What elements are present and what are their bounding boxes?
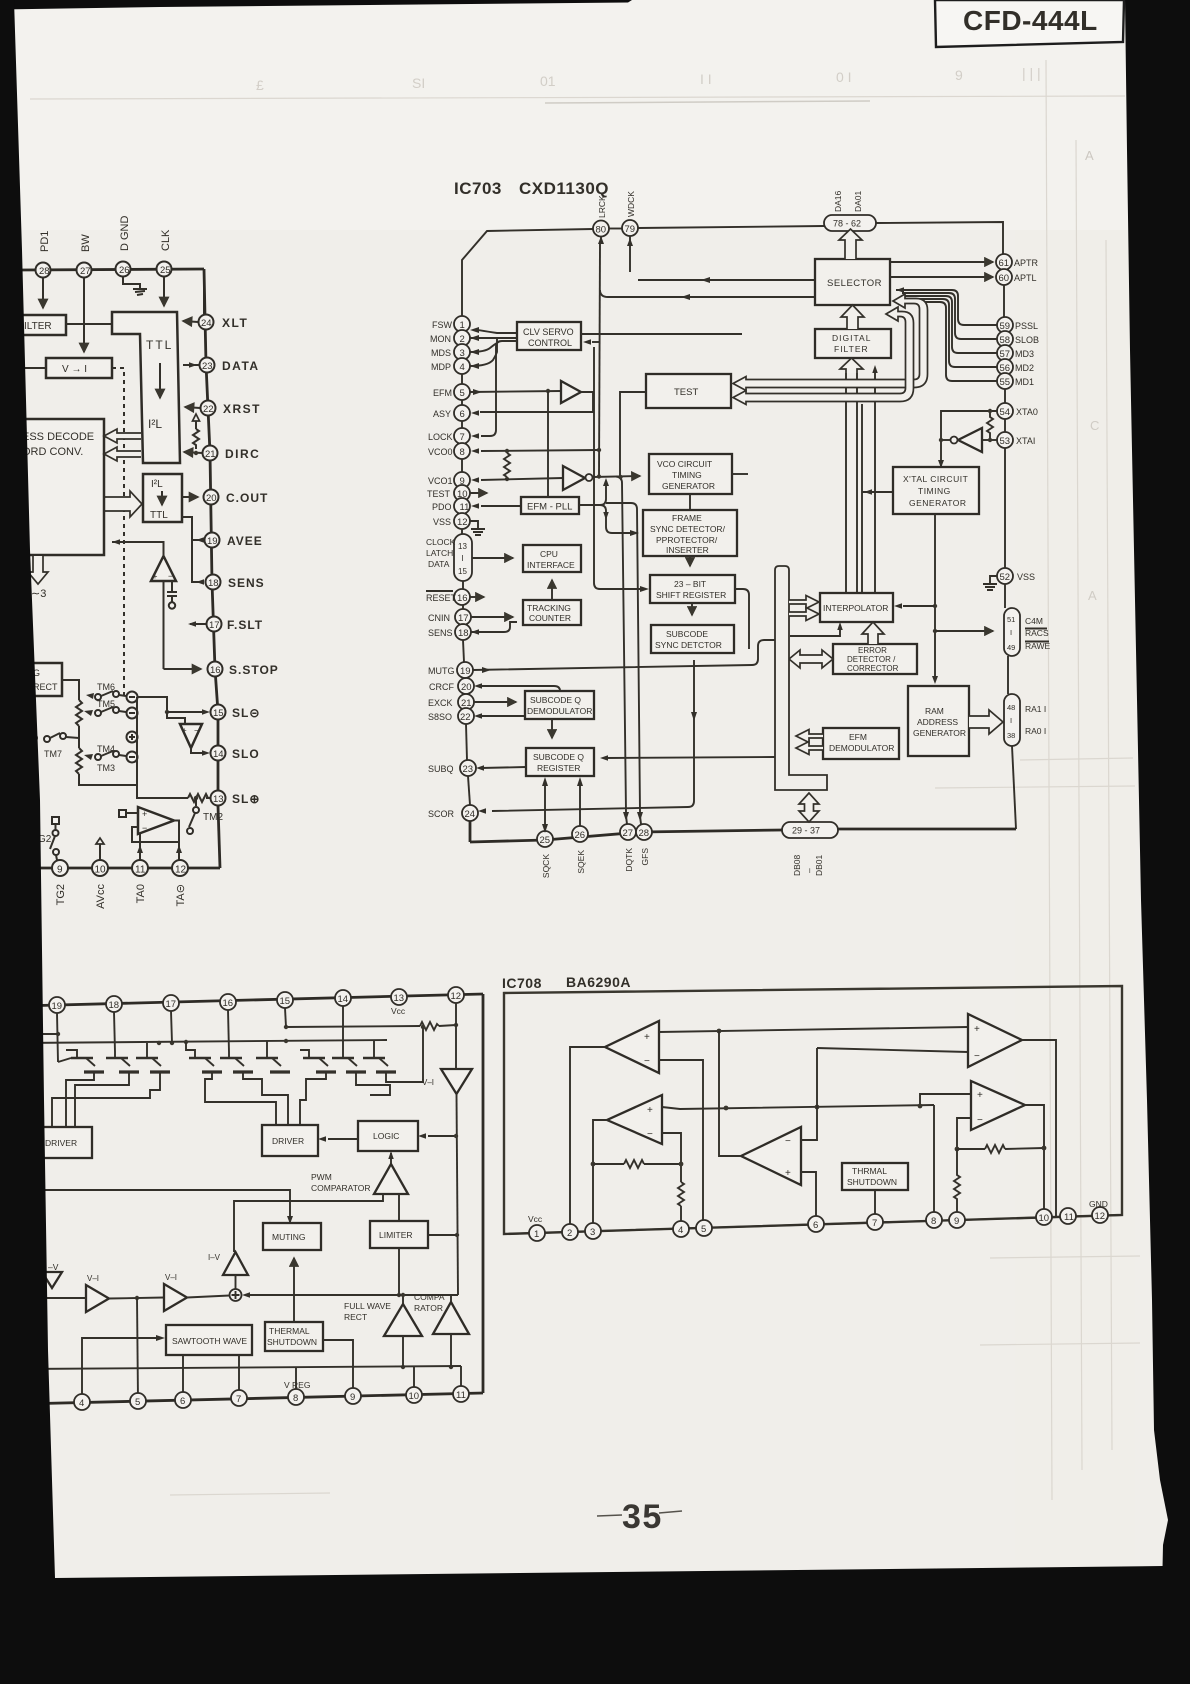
box MUTING — [263, 1223, 321, 1250]
svg-text:FULL WAVE: FULL WAVE — [344, 1301, 391, 1311]
svg-text:7: 7 — [236, 1394, 241, 1405]
resistor R-tm lower — [76, 748, 82, 774]
svg-text:ADDRESS: ADDRESS — [917, 717, 958, 727]
hollow arrow EFM demod to bus upper — [796, 730, 823, 743]
wire EFM-PLL to pin 28 (GFS) — [606, 503, 640, 812]
svg-text:26: 26 — [575, 830, 586, 841]
svg-text:27: 27 — [80, 266, 91, 277]
svg-text:PDO: PDO — [432, 502, 452, 512]
wire pin22 into TTL — [185, 407, 200, 408]
wire vco gen right to selector bus — [732, 473, 748, 475]
wire pin4 to sawtooth — [82, 1338, 156, 1401]
svg-text:LOGIC: LOGIC — [373, 1131, 399, 1141]
svg-text:XRST: XRST — [223, 402, 261, 416]
svg-text:DRIVER: DRIVER — [272, 1136, 304, 1146]
svg-text:SENS: SENS — [228, 576, 265, 590]
svg-text:PPROTECTOR/: PPROTECTOR/ — [656, 535, 718, 545]
svg-text:23: 23 — [202, 361, 213, 372]
box FILTER (cut by scan edge) — [18, 315, 66, 335]
svg-text:DB01: DB01 — [814, 854, 824, 876]
box SUBCODE Q REGISTER — [526, 748, 594, 776]
pin 20 CRCF — [458, 678, 474, 694]
pin 24 — [199, 315, 214, 330]
pin 1 FSW — [454, 316, 470, 332]
transistor Q7 — [300, 1050, 336, 1072]
wire SCOR long from subcode sync — [492, 660, 694, 811]
svg-text:C: C — [1090, 418, 1099, 433]
wire pwm comp to logic — [390, 1153, 392, 1164]
svg-text:THERMAL: THERMAL — [269, 1326, 310, 1336]
svg-text:1: 1 — [534, 1229, 539, 1240]
svg-text:LATCH: LATCH — [426, 548, 453, 558]
svg-text:TTL: TTL — [146, 338, 173, 352]
wire mid rail down to pin 8 — [933, 1105, 935, 1212]
hollow bus selector to TEST upper (arrow into TEST) — [733, 294, 928, 391]
svg-text:ILTER: ILTER — [24, 321, 52, 332]
switch G2 — [38, 817, 59, 860]
svg-text:22: 22 — [460, 712, 471, 723]
wire fan MD2 — [902, 299, 997, 367]
svg-text:–V: –V — [48, 1262, 59, 1272]
triangle comparator — [433, 1302, 469, 1334]
svg-text:−: − — [194, 726, 199, 735]
pin 2 MON — [454, 330, 470, 346]
hollow arrow TTL to decoder lower — [104, 447, 141, 461]
svg-text:GFS: GFS — [640, 848, 650, 866]
wire resistor to pin13 — [206, 797, 210, 799]
wire pin21 into TTL with junction — [184, 452, 202, 453]
bus vertical pair from digital filter to interpolator — [845, 373, 847, 593]
pin 26 — [116, 262, 131, 277]
wire pin12 down through V-I — [455, 1003, 457, 1069]
wire CRCF — [479, 686, 560, 691]
svg-text:29 - 37: 29 - 37 — [792, 826, 820, 836]
wire pin15 down — [285, 1008, 286, 1027]
svg-text:SENS: SENS — [428, 628, 453, 638]
svg-text:I²L: I²L — [148, 417, 162, 431]
box RAM ADDRESS GENERATOR — [908, 686, 969, 756]
svg-text:ERROR: ERROR — [858, 646, 887, 655]
svg-text:| | |: | | | — [1022, 65, 1041, 81]
wire thermal shutdown up — [293, 1258, 295, 1322]
wire pill 48-38 to bottom rail — [1012, 746, 1016, 829]
page number — [597, 1498, 682, 1536]
svg-text:DEMODULATOR: DEMODULATOR — [829, 743, 894, 753]
transistor Q8 — [332, 1052, 366, 1072]
wire comparator output — [450, 1334, 452, 1367]
wire A1 minus input down to pin 5 — [659, 1060, 703, 1220]
package outline right edge — [482, 994, 485, 1393]
svg-text:18: 18 — [208, 578, 219, 589]
bottom black band — [0, 1566, 1190, 1684]
scan artifacts — [30, 60, 1140, 1500]
hollow arrow error det to interpolator — [862, 622, 884, 644]
switch TM2 — [187, 796, 223, 834]
svg-text:20: 20 — [206, 493, 217, 504]
svg-text:11: 11 — [135, 865, 146, 876]
wire MUTG long horizontal — [473, 640, 775, 670]
wire FILTER right to TTL left — [66, 323, 112, 325]
svg-text:4: 4 — [79, 1398, 84, 1409]
svg-text:ESS DECODE: ESS DECODE — [22, 431, 94, 443]
pin 16 RESET — [454, 589, 470, 605]
svg-text:INSERTER: INSERTER — [666, 545, 709, 555]
wire fan MD3 — [902, 296, 997, 353]
pin chain 6-7 — [461, 421, 463, 428]
svg-text:XTAI: XTAI — [1016, 436, 1035, 446]
svg-text:DATA: DATA — [428, 559, 450, 569]
svg-text:17: 17 — [209, 620, 220, 631]
svg-text:TEST: TEST — [674, 387, 698, 398]
svg-text:RECT: RECT — [33, 682, 58, 692]
svg-text:DIGITAL: DIGITAL — [832, 333, 871, 343]
svg-text:TA⊝: TA⊝ — [175, 884, 187, 906]
svg-text:−: − — [977, 1115, 983, 1126]
junction on SL- wire — [165, 710, 169, 714]
svg-text:8: 8 — [931, 1216, 936, 1227]
wire demod to register — [551, 719, 553, 738]
wire I2L box bottom to AVEE/SENS riser — [182, 517, 203, 582]
svg-text:0 I: 0 I — [836, 69, 852, 85]
hollow arrow into digital filter from below — [840, 358, 863, 373]
wire SENS into tracking counter — [471, 622, 517, 632]
bottom rail (thick) — [504, 1215, 1122, 1234]
wire into pin16 — [164, 668, 202, 670]
switch TM4 — [84, 744, 126, 760]
svg-text:VCO1: VCO1 — [428, 476, 453, 486]
box THERMAL SHUTDOWN (IC708) — [842, 1163, 908, 1190]
svg-text:APTL: APTL — [1014, 273, 1037, 283]
pin 11 — [453, 1386, 469, 1402]
wire sawtooth outputs down — [182, 1355, 184, 1399]
svg-text:AVEE: AVEE — [227, 534, 263, 548]
pin 28 — [36, 263, 51, 278]
box ADDRESS DECODE WORD CONV (cut by scan edge) — [10, 419, 104, 555]
svg-text:LRCK: LRCK — [597, 195, 607, 218]
svg-text:CPU: CPU — [540, 549, 558, 559]
svg-text:DRIVER: DRIVER — [45, 1138, 77, 1148]
svg-text:24: 24 — [465, 809, 476, 820]
svg-text:+: + — [974, 1024, 980, 1035]
box LOGIC — [358, 1121, 418, 1151]
pin 13 — [211, 791, 226, 806]
wire selector to WDCK line — [638, 279, 815, 281]
svg-text:TEST: TEST — [427, 489, 451, 499]
svg-text:+: + — [153, 571, 158, 581]
pin 21 — [203, 446, 218, 461]
svg-text:17: 17 — [166, 999, 177, 1010]
switch TM7 — [20, 733, 79, 759]
svg-text:REGISTER: REGISTER — [537, 763, 580, 773]
wire into V-I first — [20, 1297, 86, 1299]
svg-text:SYNC DETECTOR/: SYNC DETECTOR/ — [650, 524, 726, 534]
wire I2L box to pin 20 — [182, 496, 198, 498]
svg-text:8: 8 — [293, 1393, 298, 1404]
svg-text:V–I: V–I — [422, 1078, 434, 1087]
svg-text:28: 28 — [639, 828, 650, 839]
wire into CLV right edge from LRCK vertical — [592, 341, 599, 343]
pin 19 — [205, 533, 220, 548]
feedback resistor right — [957, 1148, 985, 1150]
box VCO CIRCUIT TIMING GENERATOR — [649, 454, 732, 494]
svg-text:SCOR: SCOR — [428, 809, 455, 819]
box EFM-PLL — [521, 497, 579, 514]
wire SL+ chain down to bottom rail — [218, 806, 220, 868]
main data bus vertical (L-shaped) — [775, 566, 827, 790]
wire into shift register from CLV vertical — [594, 347, 640, 589]
svg-text:S.STOP: S.STOP — [229, 663, 279, 677]
wire FWR apex up — [402, 1295, 404, 1304]
wire pin28 to FILTER — [42, 278, 44, 308]
pin 52 — [997, 568, 1013, 584]
pin 60 — [996, 269, 1012, 285]
pin 61 — [996, 254, 1012, 270]
wire pin 17 down — [171, 1011, 172, 1043]
box X'TAL CIRCUIT TIMING GENERATOR — [893, 467, 979, 514]
box SUBCODE SYNC DETCTOR — [651, 625, 734, 653]
svg-text:APTR: APTR — [1014, 258, 1039, 268]
pin 5 — [696, 1220, 712, 1236]
svg-text:11: 11 — [460, 502, 470, 513]
pin 13 — [391, 989, 407, 1005]
resistor on pin4 leg — [678, 1182, 684, 1206]
svg-text:C.OUT: C.OUT — [226, 491, 268, 505]
wire pin11 stub — [460, 1366, 462, 1394]
transistor Q5 — [220, 1052, 253, 1072]
svg-text:FRAME: FRAME — [672, 513, 702, 523]
svg-text:VCO CIRCUIT: VCO CIRCUIT — [657, 459, 712, 469]
wire frame sync to shift register — [689, 556, 691, 566]
polarity node minus TM3 — [127, 752, 138, 763]
box SELECTOR — [815, 259, 890, 305]
svg-text:22: 22 — [203, 404, 214, 415]
svg-text:LOCK: LOCK — [428, 432, 453, 442]
svg-text:19: 19 — [460, 666, 471, 677]
bottom pin rail — [20, 867, 220, 870]
svg-text:TTL: TTL — [150, 510, 168, 521]
wire pin24 into TTL — [183, 321, 198, 322]
svg-text:SHUTDOWN: SHUTDOWN — [267, 1337, 317, 1347]
svg-text:PSSL: PSSL — [1015, 321, 1038, 331]
box AGC RECT (cut) — [10, 663, 62, 696]
svg-text:EXCK: EXCK — [428, 698, 453, 708]
svg-text:MUTG: MUTG — [428, 666, 455, 676]
svg-text:+: + — [142, 809, 147, 819]
transistor Q2 — [106, 1052, 139, 1072]
hollow arrow decoder to I2L box — [104, 491, 142, 517]
box I2L to TTL shifter — [143, 474, 182, 522]
triangle V-I first — [86, 1285, 109, 1312]
wire A5 plus from mid rail — [920, 1094, 971, 1106]
svg-text:6: 6 — [180, 1396, 185, 1407]
wire tracking counter to CPU interface — [551, 580, 553, 600]
pin 15 — [277, 992, 293, 1008]
wire Vcc rail with resistor to pin12 column — [286, 1026, 420, 1027]
svg-text:DQTK: DQTK — [624, 848, 634, 872]
pin 17 CNIN — [455, 609, 471, 625]
right chain 55 to 54 — [1004, 389, 1006, 403]
svg-text:RA0 I: RA0 I — [1025, 726, 1046, 736]
wire pin 14 down — [342, 1006, 344, 1052]
wire A2 minus with resistor to pin 4 — [662, 1133, 681, 1182]
pin 27 — [77, 263, 92, 278]
pin 12 — [172, 860, 188, 876]
hollow arrow bus to interpolator lower — [789, 608, 819, 621]
pin 54 — [997, 403, 1013, 419]
svg-text:55: 55 — [1000, 377, 1011, 388]
wire op-amp feedback loop — [132, 827, 179, 842]
resistor on pin9 leg — [954, 1149, 960, 1220]
triangle -V buffer (cut) — [42, 1272, 62, 1288]
pin oval 29-37 — [782, 822, 838, 838]
pin 3 MDS — [454, 344, 470, 360]
pin 9 — [345, 1388, 361, 1404]
pin 7 — [231, 1390, 247, 1406]
svg-text:I²L: I²L — [151, 479, 163, 490]
svg-text:DA01: DA01 — [853, 190, 863, 212]
svg-text:+: + — [785, 1168, 791, 1179]
svg-text:25: 25 — [540, 835, 551, 846]
wire vertical feed to interpolator (left) — [861, 404, 863, 593]
capacitor on comparator minus input — [167, 581, 177, 609]
pin 26 — [572, 826, 588, 842]
wire CNIN into tracking counter — [471, 616, 513, 618]
inverter xtal oscillator — [958, 428, 982, 452]
svg-text:9: 9 — [350, 1392, 355, 1403]
svg-text:17: 17 — [458, 613, 469, 624]
svg-text:9: 9 — [57, 865, 63, 876]
svg-text:CLV SERVO: CLV SERVO — [523, 327, 574, 337]
hollow double arrow bus to 29-37 oval — [799, 793, 819, 822]
svg-text:RECT: RECT — [344, 1312, 367, 1322]
svg-text:5: 5 — [135, 1397, 140, 1408]
svg-text:19: 19 — [207, 536, 218, 547]
dashed feedback line — [112, 368, 124, 700]
wire vertical feed to interpolator (right) with arrow to digital filter — [874, 371, 876, 593]
wire pin 18 down — [114, 1012, 115, 1052]
wire pin 16 down — [228, 1010, 229, 1052]
long node wire above bottom pins — [20, 1366, 461, 1369]
pin chain 5-6 — [461, 400, 463, 405]
pin chain 8-9 — [461, 459, 463, 472]
pin 7 — [867, 1214, 883, 1230]
svg-text:5: 5 — [460, 388, 465, 399]
pin 21 EXCK — [458, 694, 474, 710]
hollow bus selector to TEST lower (arrow into TEST) — [733, 307, 914, 405]
pin 20 — [204, 490, 219, 505]
package outline top rail — [20, 994, 483, 1006]
wire muting input from left — [20, 1190, 290, 1216]
pin 4 MDP — [454, 358, 470, 374]
pill pins 13-15 — [454, 534, 472, 581]
svg-text:CXD1130Q: CXD1130Q — [519, 179, 609, 198]
pin 14 — [211, 746, 226, 761]
svg-text:11: 11 — [456, 1390, 466, 1401]
page number left dash — [597, 1515, 622, 1516]
pin 11 — [132, 860, 148, 876]
svg-text:+: + — [644, 1032, 650, 1043]
svg-text:MD3: MD3 — [1015, 349, 1034, 359]
wire A3 output to top line column — [719, 1031, 741, 1156]
base bus wire upper — [20, 1033, 58, 1035]
wire LRCK vertical (pin80 feed) — [600, 237, 602, 245]
wire A5 minus feedback — [957, 1118, 971, 1149]
hollow double arrow bus to error detector — [789, 650, 833, 668]
svg-text:SHUTDOWN: SHUTDOWN — [847, 1177, 897, 1187]
svg-text:A: A — [1088, 588, 1097, 603]
svg-text:COMPA: COMPA — [414, 1292, 445, 1302]
svg-text:Vcc: Vcc — [528, 1214, 543, 1224]
wire between V-I stages — [109, 1298, 164, 1299]
svg-text:Vcc: Vcc — [391, 1006, 406, 1016]
svg-text:SQEK: SQEK — [576, 850, 586, 874]
svg-text:8: 8 — [460, 447, 465, 458]
svg-text:RA1 I: RA1 I — [1025, 704, 1046, 714]
wire bus to interpolator bottom — [790, 628, 840, 636]
svg-text:GENERATOR: GENERATOR — [662, 481, 715, 491]
pin 11 PDO — [454, 498, 470, 514]
wire pill to CPU interface — [472, 557, 513, 559]
pin 4 — [74, 1394, 90, 1410]
svg-text:SYNC DETCTOR: SYNC DETCTOR — [655, 640, 722, 650]
pin 6 ASY — [454, 405, 470, 421]
faint bleed-through digits — [256, 65, 1041, 93]
hollow arrow TTL to decoder upper — [104, 429, 141, 443]
wire A1 output to pin 2 — [570, 1047, 605, 1224]
base bus wire lower — [20, 1040, 387, 1043]
wires pins1-4 into CLV servo — [478, 330, 517, 333]
pin chain 19-24 — [465, 677, 466, 679]
svg-text:19: 19 — [52, 1001, 63, 1012]
svg-text:7: 7 — [872, 1218, 877, 1229]
box THERMAL SHUTDOWN (left) — [265, 1322, 323, 1351]
wire thermal right to pin 9 — [323, 1340, 353, 1396]
svg-text:35: 35 — [622, 1498, 663, 1536]
left black band — [0, 0, 55, 1578]
svg-text:A: A — [1085, 148, 1094, 163]
svg-text:WDCK: WDCK — [626, 191, 636, 217]
feedback resistor left — [591, 1162, 596, 1167]
svg-text:9: 9 — [954, 1216, 959, 1227]
polarity node minus TM5 — [127, 708, 138, 719]
op-amp A2 (left-pointing, mid-left) — [607, 1095, 662, 1144]
svg-text:10: 10 — [95, 865, 107, 876]
pin 17 — [163, 995, 179, 1011]
svg-text:−: − — [647, 1129, 653, 1140]
bottom pin rail — [20, 1393, 483, 1404]
svg-text:5: 5 — [701, 1224, 706, 1235]
svg-text:THRMAL: THRMAL — [852, 1166, 887, 1176]
wire pwm comp inputs — [398, 1194, 400, 1221]
pin 7 LOCK — [454, 428, 470, 444]
svg-text:MD2: MD2 — [1015, 363, 1034, 373]
svg-text:7: 7 — [460, 432, 465, 443]
pin 59 — [997, 317, 1013, 333]
wire junction down to pin 5 — [137, 1298, 138, 1400]
ground at pin 52 — [983, 576, 997, 590]
svg-text:£: £ — [256, 77, 264, 93]
pin 80 — [593, 221, 609, 237]
pin 22 SBSO — [458, 708, 474, 724]
wire WDCK vertical (pin79 feed) — [629, 236, 631, 246]
pill pins 51-49 — [1004, 608, 1020, 656]
pin 12 VSS — [454, 513, 470, 529]
svg-text:−: − — [785, 1136, 791, 1147]
wire shift register right to bus — [735, 589, 749, 649]
svg-text:23: 23 — [463, 764, 474, 775]
svg-text:SLOB: SLOB — [1015, 335, 1039, 345]
svg-text:COUNTER: COUNTER — [529, 613, 571, 623]
